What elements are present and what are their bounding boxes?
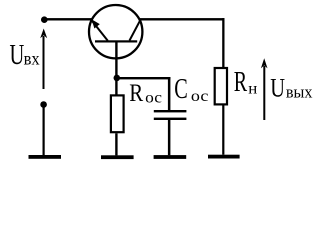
wire source stem xyxy=(43,106,45,155)
svg-text:U: U xyxy=(270,74,285,103)
wire capacitor to ground xyxy=(168,120,171,156)
ground G1 xyxy=(29,155,62,159)
svg-text:U: U xyxy=(10,40,25,71)
svg-text:ос: ос xyxy=(145,88,162,106)
label U_vyx xyxy=(270,74,313,103)
wire node to capacitor xyxy=(116,77,170,79)
wire Rn to ground xyxy=(222,106,224,155)
wire collector to load xyxy=(140,18,225,20)
ground G2 xyxy=(101,155,134,159)
node C base node dot xyxy=(114,75,121,82)
wire load vertical xyxy=(222,18,224,67)
svg-text:ос: ос xyxy=(191,87,209,105)
capacitor Coc xyxy=(154,110,187,120)
ground G3 xyxy=(154,155,187,159)
resistor Roc xyxy=(111,95,124,132)
U_vx arrow xyxy=(40,29,47,90)
label U_vx xyxy=(10,40,41,71)
base lead xyxy=(115,42,117,78)
U_vyx arrow xyxy=(261,58,268,120)
svg-text:R: R xyxy=(129,78,143,106)
svg-text:вых: вых xyxy=(286,82,313,101)
base bar xyxy=(95,40,137,42)
label Roc xyxy=(129,78,162,106)
wire node to resistor xyxy=(115,79,117,95)
svg-text:вх: вх xyxy=(24,49,40,69)
svg-text:н: н xyxy=(248,80,257,97)
wire capacitor vertical top xyxy=(168,77,171,111)
node A input dot xyxy=(41,16,48,23)
label Coc xyxy=(174,74,209,105)
resistor Rn xyxy=(215,68,227,104)
wire input horizontal xyxy=(44,18,92,20)
ground G4 xyxy=(208,155,240,159)
transistor Q1 xyxy=(89,5,142,78)
svg-text:C: C xyxy=(174,74,187,105)
collector lead xyxy=(130,19,141,40)
wire resistor to ground xyxy=(115,133,117,155)
label Rn xyxy=(234,67,258,98)
svg-text:R: R xyxy=(234,67,248,98)
node B source top dot xyxy=(40,101,47,108)
emitter lead with arrow xyxy=(91,20,108,41)
